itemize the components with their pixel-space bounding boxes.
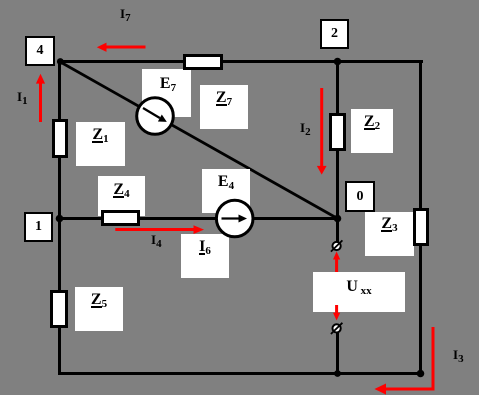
wire bottom bus [58,372,422,375]
wire top bus (node4 to top-right corner) [58,60,423,63]
current arrow I1 [36,74,45,122]
wire node0 to top terminal [336,218,339,243]
wire bottom terminal to bottom bus [336,333,339,374]
voltage arrow U_xx down [333,305,340,321]
resistor Z1 [52,119,68,158]
terminal top (open circuit) [331,240,343,251]
label box Z5 [75,287,123,331]
junction node 4 [57,58,64,65]
current arrow I3 elbow [374,327,434,395]
current label I4 [151,233,162,247]
label box E7 [142,69,191,117]
current arrow I7 [97,43,146,52]
junction node 0 [334,215,342,223]
resistor Z5 [50,290,68,328]
source E4 circle [216,200,253,237]
label box Z3 [365,212,414,256]
terminal bottom (open circuit) [331,323,343,334]
junction node 2 [334,58,342,66]
node 4 box [25,36,55,66]
resistor Z2 [329,113,346,151]
node 0 box [345,181,375,212]
voltage arrow U_xx up [333,252,340,273]
current arrow I4 [115,225,204,234]
current label I7 [120,7,131,21]
junction bottom terminal branch [334,370,341,377]
source E7 arrow [143,108,167,122]
source E4 arrow [222,215,248,223]
wire right bus (top-right corner down to bottom bus) [419,60,422,375]
source E7 circle [137,98,174,135]
label box Z2 [351,109,393,153]
resistor Z7 [183,54,223,70]
resistor Z4 [101,210,140,226]
wire left bus (node4 down to bottom-left corner) [58,60,61,375]
label box I6 [181,234,229,278]
junction bottom right [417,370,425,378]
label box Z7 [200,85,248,129]
label box Z1 [76,122,125,166]
current label I3 [453,348,464,362]
junction node 1 [56,215,64,223]
wire middle horizontal (node1 to node0) [58,217,339,220]
label box E4 [202,169,250,213]
wire middle vertical (node2 to node0 through Z2) [336,60,339,220]
current label I2 [300,121,311,135]
label box Z4 [98,176,145,216]
resistor Z3 [413,208,429,246]
current arrow I2 [317,88,327,175]
current label I1 [17,90,28,104]
node 1 box [24,212,53,242]
node 2 box [320,19,349,49]
label box U_xx [313,272,405,312]
